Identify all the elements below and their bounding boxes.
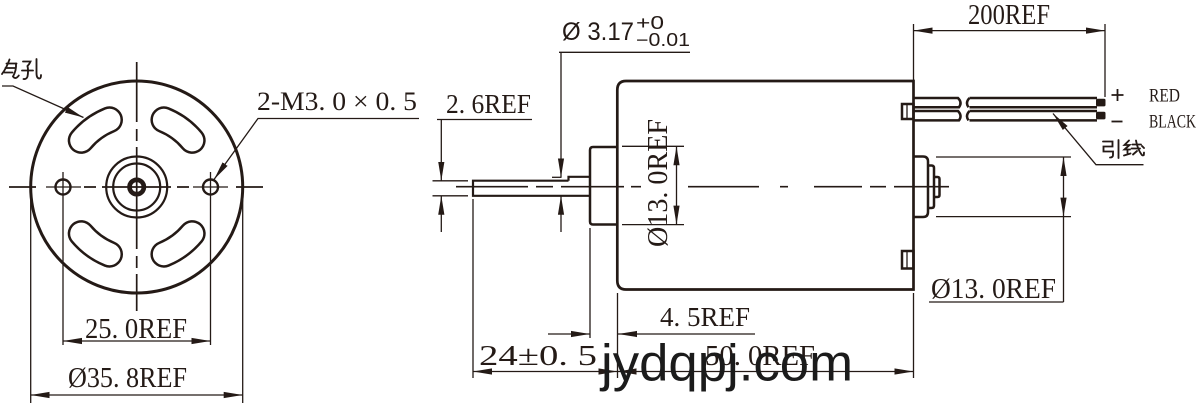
mounting hole right (193, 172, 228, 345)
leader for qikong (2, 86, 84, 118)
dimension 24 +/-0.5 (473, 199, 618, 378)
svg-text:Ø 3.17: Ø 3.17 (562, 18, 634, 46)
label yinxian (lead wires) (1103, 140, 1144, 158)
bare wire tip black (1096, 112, 1106, 120)
svg-text:RED: RED (1149, 86, 1180, 107)
svg-text:4. 5REF: 4. 5REF (660, 302, 750, 332)
svg-text:25. 0REF: 25. 0REF (85, 313, 187, 345)
front view vertical centerline (136, 62, 138, 311)
leader for yinxian (1053, 114, 1144, 165)
polarity minus sign (1112, 121, 1123, 123)
motor front view: outer body circle (31, 81, 243, 293)
dimension dia 13.0REF (front boss, rotated) (622, 119, 684, 247)
lead wire red (top) (914, 98, 1098, 107)
svg-text:Ø35. 8REF: Ø35. 8REF (68, 362, 187, 394)
rear bearing tip (934, 177, 940, 197)
svg-text:24±0. 5: 24±0. 5 (479, 340, 597, 372)
dimension 4.5REF (548, 228, 755, 338)
rear endcap boss step 2 (928, 166, 934, 209)
svg-text:2-M3. 0 × 0. 5: 2-M3. 0 × 0. 5 (257, 87, 417, 116)
center hub ring outer (106, 157, 167, 218)
lead wire black (bottom) (914, 111, 1098, 120)
dimension dia 3.17 +0/-0.01 (552, 13, 690, 232)
vent slot upper-right (164, 120, 192, 141)
vent slot upper-left (81, 120, 109, 141)
bare wire tip red (1096, 99, 1106, 107)
svg-text:−0.01: −0.01 (636, 30, 690, 50)
dimension dia 13.0REF (rear boss) (929, 157, 1071, 305)
dimension 25.0REF (63, 313, 211, 345)
polarity plus sign (1112, 89, 1124, 101)
dimension 50.0REF (618, 293, 914, 378)
terminal tab bottom (902, 251, 914, 269)
svg-text:BLACK: BLACK (1149, 112, 1196, 133)
dimension 200REF (914, 0, 1106, 97)
svg-text:Ø13. 0REF: Ø13. 0REF (931, 273, 1056, 305)
motor body side view (617, 81, 913, 290)
svg-text:200REF: 200REF (968, 0, 1050, 31)
center hub ring inner (113, 164, 160, 211)
mounting hole left (46, 172, 81, 345)
dimension 2.6REF (433, 89, 533, 232)
shaft end circle (130, 180, 144, 194)
motor shaft (473, 177, 590, 196)
front view horizontal centerline (9, 186, 263, 188)
label qikong (air vent) (2, 59, 41, 79)
svg-text:Ø13. 0REF: Ø13. 0REF (642, 119, 674, 247)
leader for 2-M3.0x0.5 (214, 119, 419, 180)
wire grommet top (902, 104, 914, 119)
dimension dia 35.8REF (31, 192, 243, 403)
vent slot lower-right (164, 234, 192, 255)
front bearing boss (590, 147, 618, 225)
side view axis centerline (456, 186, 949, 188)
svg-text:jydqpj.com: jydqpj.com (599, 335, 853, 393)
vent slot lower-left (81, 234, 109, 255)
rear endcap boss step 1 (914, 157, 929, 218)
svg-text:2. 6REF: 2. 6REF (446, 89, 531, 119)
